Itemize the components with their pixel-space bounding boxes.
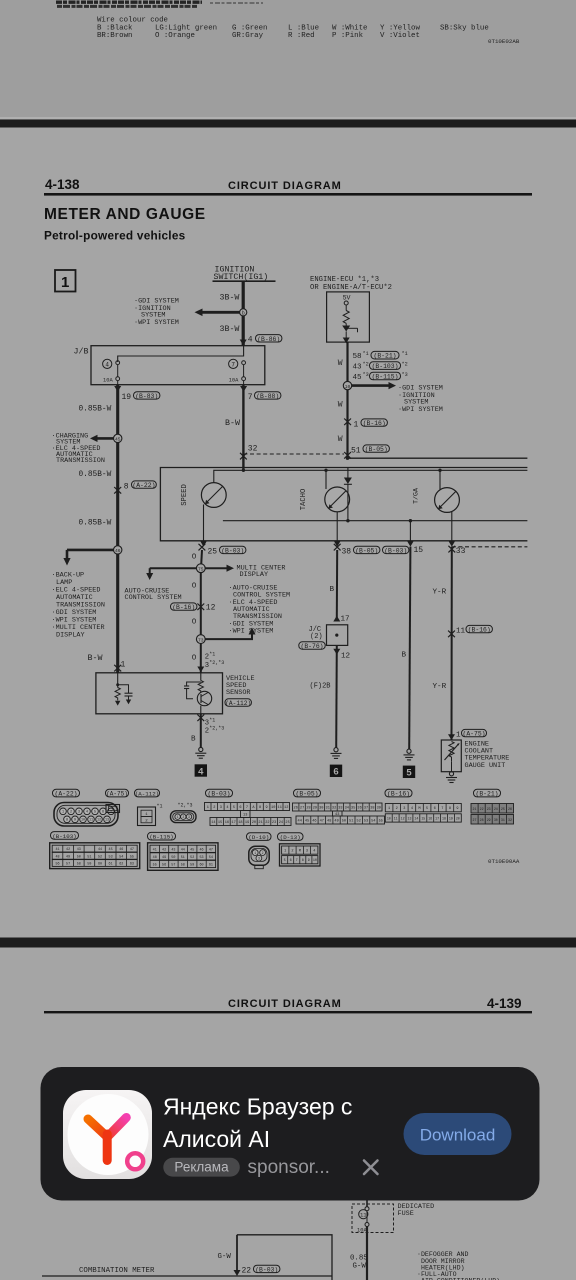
svg-text:32: 32 — [248, 445, 258, 454]
svg-text:7: 7 — [248, 393, 253, 402]
svg-text:4: 4 — [86, 811, 88, 815]
svg-text:49: 49 — [334, 820, 338, 824]
svg-text:52: 52 — [190, 856, 194, 860]
pin 12 (B-16) — [171, 603, 197, 610]
svg-text:55: 55 — [153, 864, 157, 868]
tacho signal wire 38 down — [336, 550, 338, 618]
systems list right of 73 — [229, 584, 291, 635]
svg-text:7: 7 — [231, 361, 235, 368]
svg-text:11: 11 — [278, 806, 282, 810]
svg-text:(B-03): (B-03) — [207, 791, 230, 798]
wire colour code legend — [97, 17, 520, 46]
svg-text:24: 24 — [494, 807, 498, 811]
alice ring — [127, 1153, 143, 1169]
svg-text:46: 46 — [119, 848, 123, 852]
svg-text:11: 11 — [394, 816, 398, 820]
svg-text:43: 43 — [77, 848, 81, 852]
svg-text:8: 8 — [124, 482, 129, 491]
svg-text:8: 8 — [259, 806, 261, 810]
svg-text:(B-86): (B-86) — [257, 336, 280, 343]
arrow out of ECU — [343, 338, 350, 344]
meter inner bus top — [214, 470, 528, 483]
svg-text:(B-115): (B-115) — [149, 834, 173, 841]
node 46 branch backup lamp — [67, 549, 118, 552]
svg-text:G-W: G-W — [353, 1263, 367, 1271]
svg-text:27: 27 — [300, 807, 304, 811]
pin 11 (B-16) — [448, 631, 455, 638]
svg-text:26: 26 — [508, 807, 512, 811]
svg-text:18: 18 — [442, 816, 446, 820]
dedicated fuse label — [398, 1203, 435, 1218]
svg-text:10A: 10A — [103, 378, 113, 384]
svg-text:*1: *1 — [209, 652, 215, 658]
connector label B-16 — [385, 789, 412, 797]
svg-text:M: M — [299, 850, 301, 854]
svg-text:2: 2 — [70, 811, 72, 815]
svg-text:1: 1 — [254, 851, 256, 855]
svg-text:OR ENGINE-A/T-ECU*2: OR ENGINE-A/T-ECU*2 — [310, 284, 392, 292]
svg-text:1: 1 — [456, 731, 461, 739]
systems list p139 — [417, 1251, 500, 1280]
svg-text:23: 23 — [487, 807, 491, 811]
svg-text:(B-03): (B-03) — [221, 547, 244, 554]
svg-text:W :White: W :White — [332, 24, 367, 32]
svg-text:*2,*3: *2,*3 — [178, 803, 193, 809]
svg-text:75: 75 — [198, 566, 204, 572]
ad banner card — [41, 1067, 540, 1201]
svg-text:5: 5 — [233, 806, 235, 810]
svg-text:·WPI SYSTEM: ·WPI SYSTEM — [229, 628, 274, 636]
connector X on 32 wire — [240, 453, 247, 460]
svg-text:Реклама: Реклама — [174, 1160, 229, 1175]
connector B-103 body — [50, 843, 140, 869]
svg-text:46: 46 — [115, 548, 121, 554]
connector label B-103 — [51, 832, 79, 840]
svg-text:4: 4 — [248, 335, 253, 344]
svg-text:51: 51 — [87, 855, 91, 859]
svg-text:M: M — [418, 807, 420, 811]
svg-text:51: 51 — [349, 820, 353, 824]
connector label D-10 — [247, 833, 272, 841]
svg-text:*1: *1 — [363, 351, 369, 357]
svg-text:28: 28 — [480, 818, 484, 822]
svg-text:13: 13 — [105, 819, 109, 823]
svg-text:(B-21): (B-21) — [373, 353, 396, 360]
svg-text:17: 17 — [341, 616, 350, 624]
svg-text:16: 16 — [225, 821, 229, 825]
svg-text:O: O — [192, 619, 197, 627]
svg-text:21: 21 — [258, 821, 262, 825]
svg-text:·WPI SYSTEM: ·WPI SYSTEM — [134, 319, 179, 327]
svg-text:3: 3 — [188, 815, 190, 819]
svg-text:(B-83): (B-83) — [135, 393, 158, 400]
svg-text:52: 52 — [98, 855, 102, 859]
connector D-10 body — [249, 846, 269, 868]
svg-text:20: 20 — [252, 821, 256, 825]
svg-text:(D-10): (D-10) — [248, 834, 269, 841]
buffer diode in ECU — [342, 326, 350, 332]
svg-text:6: 6 — [434, 807, 436, 811]
Y logo stem — [103, 1134, 112, 1161]
node 45 branch charging — [96, 437, 118, 440]
svg-text:42: 42 — [66, 848, 70, 852]
svg-text:37: 37 — [364, 807, 368, 811]
svg-text:1: 1 — [121, 660, 126, 669]
svg-text:B: B — [191, 736, 196, 744]
svg-text:(D-13): (D-13) — [280, 834, 301, 841]
connector B-03 body — [205, 803, 290, 811]
svg-text:59: 59 — [87, 863, 91, 867]
svg-text:29: 29 — [487, 818, 491, 822]
vehicle speed sensor box — [96, 673, 223, 714]
connector label B-05 — [294, 789, 321, 797]
svg-text:0T10E02AB: 0T10E02AB — [488, 38, 520, 45]
svg-text:J/B: J/B — [74, 347, 89, 357]
exit arrow 15 — [407, 541, 414, 547]
ground code 6 — [330, 765, 342, 777]
svg-text:·WPI SYSTEM: ·WPI SYSTEM — [398, 406, 443, 414]
svg-text:48: 48 — [153, 856, 157, 860]
svg-text:B :Black: B :Black — [97, 24, 133, 32]
svg-text:2: 2 — [213, 806, 215, 810]
svg-text:58: 58 — [181, 864, 185, 868]
svg-text:Y-R: Y-R — [433, 683, 447, 691]
svg-text:(B-103): (B-103) — [372, 363, 399, 370]
connector A-112 alt body — [171, 803, 197, 823]
svg-text:4: 4 — [411, 807, 413, 811]
svg-text:62: 62 — [119, 863, 123, 867]
Y logo right arm — [108, 1118, 127, 1137]
svg-text:L :Blue: L :Blue — [288, 24, 319, 32]
svg-text:5: 5 — [94, 811, 96, 815]
svg-text:6: 6 — [333, 767, 338, 778]
svg-text:9: 9 — [308, 859, 310, 863]
exit arrow 33 — [448, 541, 455, 547]
svg-text:21: 21 — [473, 807, 477, 811]
svg-text:10: 10 — [387, 816, 391, 820]
svg-text:3: 3 — [78, 811, 80, 815]
svg-text:4: 4 — [198, 766, 204, 777]
svg-text:9: 9 — [266, 806, 268, 810]
exit arrow 38 — [334, 541, 341, 547]
svg-text:30: 30 — [494, 818, 498, 822]
svg-text:Y-R: Y-R — [433, 589, 447, 597]
branch left auto-cruise — [150, 567, 197, 569]
svg-text:13: 13 — [243, 814, 247, 818]
svg-text:30: 30 — [319, 807, 323, 811]
5V terminal — [344, 301, 348, 305]
wire W from ECU down — [346, 342, 348, 458]
svg-text:*1: *1 — [209, 717, 215, 723]
svg-text:O :Orange: O :Orange — [155, 32, 195, 40]
tacho tap wire — [325, 470, 327, 489]
svg-text:12: 12 — [401, 816, 405, 820]
svg-text:B-W: B-W — [225, 419, 240, 428]
svg-text:4: 4 — [313, 850, 315, 854]
svg-text:O: O — [192, 655, 197, 663]
svg-text:10: 10 — [81, 819, 85, 823]
node 75 — [196, 564, 205, 573]
svg-text:42: 42 — [162, 848, 166, 852]
svg-text:(B-103): (B-103) — [52, 833, 76, 840]
ground below ECT — [449, 772, 453, 776]
svg-text:51: 51 — [181, 856, 185, 860]
svg-text:63: 63 — [130, 863, 134, 867]
connector label B-21 — [474, 789, 501, 797]
svg-text:Алисой AI: Алисой AI — [163, 1126, 270, 1152]
svg-text:(B-115): (B-115) — [372, 373, 399, 380]
svg-text:(B-05): (B-05) — [295, 791, 318, 798]
svg-text:CONTROL SYSTEM: CONTROL SYSTEM — [125, 594, 182, 602]
pin 1 (B-16) — [344, 419, 351, 426]
svg-text:57: 57 — [171, 864, 175, 868]
svg-text:20: 20 — [456, 816, 460, 820]
svg-text:50: 50 — [171, 856, 175, 860]
svg-text:(A-112): (A-112) — [135, 791, 159, 798]
svg-text:9: 9 — [456, 807, 458, 811]
app icon tile — [63, 1090, 152, 1179]
svg-text:32: 32 — [508, 818, 512, 822]
svg-text:(A-75): (A-75) — [106, 791, 128, 798]
ground 6 symbol — [334, 748, 338, 752]
joint connector J/C(2) box — [327, 625, 348, 646]
svg-text:3B-W: 3B-W — [220, 325, 240, 334]
svg-text:11: 11 — [456, 628, 466, 636]
svg-text:sponsor...: sponsor... — [248, 1157, 330, 1178]
svg-text:4: 4 — [226, 806, 228, 810]
svg-text:*2: *2 — [363, 362, 369, 368]
svg-text:47: 47 — [320, 820, 324, 824]
pull-up resistor R in ECU — [343, 311, 349, 324]
svg-text:48: 48 — [327, 820, 331, 824]
svg-text:59: 59 — [190, 864, 194, 868]
connector label D-13 — [278, 833, 304, 841]
svg-text:55: 55 — [130, 855, 134, 859]
svg-text:1: 1 — [284, 850, 286, 854]
fuel gauge tap — [439, 470, 441, 489]
connector B-16 body — [385, 804, 461, 812]
svg-text:Wire colour code: Wire colour code — [97, 17, 168, 25]
svg-text:b: b — [242, 310, 245, 316]
svg-text:1: 1 — [207, 806, 209, 810]
svg-text:50: 50 — [342, 820, 346, 824]
wire B-W right from J/B — [242, 385, 244, 471]
top rail wire from 51 — [348, 457, 528, 459]
svg-text:TRANSMISSION: TRANSMISSION — [56, 457, 105, 465]
ground code 5 — [403, 766, 415, 778]
tacho diode branch — [347, 468, 349, 478]
connector X mark A-22 — [114, 487, 121, 494]
svg-text:Яндекс Браузер с: Яндекс Браузер с — [163, 1094, 352, 1120]
engine coolant temp gauge unit box — [441, 740, 461, 772]
svg-text:9: 9 — [74, 819, 76, 823]
svg-text:60: 60 — [98, 863, 102, 867]
svg-text:46: 46 — [312, 820, 316, 824]
svg-text:4-138: 4-138 — [45, 177, 80, 192]
svg-text:0.85B-W: 0.85B-W — [79, 471, 112, 479]
svg-text:17: 17 — [231, 821, 235, 825]
svg-text:48: 48 — [55, 855, 59, 859]
engine ECU label — [310, 276, 392, 292]
meter box top edge p139 — [42, 1275, 332, 1277]
svg-text:Y :Yellow: Y :Yellow — [380, 24, 420, 32]
exit arrow 25 — [200, 541, 207, 547]
svg-text:(A-112): (A-112) — [225, 700, 251, 707]
svg-text:39: 39 — [377, 807, 381, 811]
svg-text:7: 7 — [246, 806, 248, 810]
svg-text:10: 10 — [313, 859, 317, 863]
svg-text:45: 45 — [353, 374, 363, 382]
wire 0.85B-W left trunk — [116, 385, 119, 673]
svg-text:1: 1 — [61, 274, 69, 291]
right system list — [398, 385, 443, 414]
svg-text:TACHO: TACHO — [300, 489, 308, 511]
svg-text:4: 4 — [105, 361, 109, 368]
svg-text:DISPLAY: DISPLAY — [240, 571, 269, 579]
svg-text:33: 33 — [456, 547, 466, 556]
svg-text:26: 26 — [294, 807, 298, 811]
arrow into J/B — [240, 340, 247, 346]
ground 4 symbol — [199, 747, 203, 751]
wire ignition to J/B — [242, 281, 245, 346]
connector B-21 lower row — [471, 815, 514, 825]
svg-text:16: 16 — [428, 816, 432, 820]
svg-text:13: 13 — [408, 816, 412, 820]
svg-text:(B-76): (B-76) — [300, 643, 323, 650]
svg-text:7: 7 — [296, 859, 298, 863]
auto-cruise label left — [125, 587, 182, 602]
svg-text:8: 8 — [449, 807, 451, 811]
svg-text:12: 12 — [284, 806, 288, 810]
Y logo left arm — [88, 1119, 107, 1137]
ground 5 symbol — [407, 749, 411, 753]
meter inner bus bottom — [223, 520, 528, 522]
svg-text:56: 56 — [162, 864, 166, 868]
dedicated fuse box p139 — [352, 1200, 394, 1234]
branch arrow to left systems — [201, 311, 243, 314]
svg-text:47: 47 — [130, 848, 134, 852]
svg-text:W: W — [338, 359, 343, 368]
(B-76) label — [299, 642, 325, 649]
svg-text:(A-22): (A-22) — [54, 791, 77, 798]
svg-text:LG:Light green: LG:Light green — [155, 24, 217, 32]
svg-text:45: 45 — [190, 848, 194, 852]
svg-text:ENGINE-ECU *1,*3: ENGINE-ECU *1,*3 — [310, 276, 379, 284]
svg-text:41: 41 — [153, 848, 157, 852]
svg-text:5: 5 — [426, 807, 428, 811]
svg-text:(A-75): (A-75) — [462, 731, 485, 738]
svg-text:41: 41 — [55, 848, 59, 852]
svg-text:2: 2 — [291, 850, 293, 854]
svg-text:43: 43 — [171, 848, 175, 852]
figure number box 1 — [55, 270, 76, 292]
svg-text:45: 45 — [109, 848, 113, 852]
close icon — [364, 1161, 378, 1175]
VSS internal left RC — [117, 673, 119, 688]
branch right from 73 — [205, 633, 252, 639]
svg-text:T/GA: T/GA — [413, 488, 420, 504]
ECU pin rows — [353, 351, 408, 382]
svg-text:10: 10 — [271, 806, 275, 810]
fuse 7 — [242, 361, 246, 365]
svg-text:*1: *1 — [402, 351, 408, 357]
pins 3/2 below VSS — [197, 715, 204, 722]
svg-text:1: 1 — [388, 807, 390, 811]
svg-text:GR:Gray: GR:Gray — [232, 32, 264, 40]
ground code 4 — [195, 764, 207, 776]
svg-text:1: 1 — [177, 815, 179, 819]
svg-text:(B-16): (B-16) — [172, 604, 195, 611]
svg-text:12: 12 — [206, 604, 216, 613]
svg-text:61: 61 — [109, 863, 113, 867]
connector B-115 body — [148, 843, 218, 871]
svg-text:0.85B-W: 0.85B-W — [79, 406, 112, 414]
svg-text:(B-05): (B-05) — [365, 446, 388, 453]
svg-text:49: 49 — [66, 855, 70, 859]
J/B internal bus — [118, 346, 244, 362]
svg-text:COMBINATION METER: COMBINATION METER — [79, 1267, 155, 1275]
svg-text:O: O — [192, 554, 197, 562]
svg-text:52: 52 — [357, 820, 361, 824]
pin 7 (B-88) — [240, 386, 247, 392]
backup lamp list — [52, 572, 105, 640]
svg-text:W: W — [338, 401, 343, 410]
connector label A-112 — [135, 789, 160, 797]
svg-text:(B-16): (B-16) — [387, 791, 410, 798]
svg-text:38: 38 — [370, 807, 374, 811]
svg-text:14: 14 — [211, 821, 215, 825]
svg-text:BR:Brown: BR:Brown — [97, 32, 132, 40]
svg-text:22: 22 — [242, 1266, 252, 1275]
svg-text:60: 60 — [199, 864, 203, 868]
svg-text:0T10E00AA: 0T10E00AA — [488, 858, 520, 865]
svg-text:3: 3 — [220, 806, 222, 810]
svg-text:31: 31 — [501, 818, 505, 822]
svg-text:44: 44 — [298, 820, 302, 824]
svg-text:B: B — [330, 586, 335, 594]
pin 19 (B-83) — [114, 386, 121, 392]
svg-text:*2: *2 — [402, 362, 408, 368]
earth wire 15 down — [409, 547, 410, 749]
svg-text:8: 8 — [302, 859, 304, 863]
svg-text:2: 2 — [182, 815, 184, 819]
svg-text:B-W: B-W — [88, 654, 103, 663]
ad badge — [163, 1158, 240, 1177]
svg-text:15: 15 — [414, 546, 424, 555]
connector B-05 mid cell — [333, 811, 343, 817]
dashed stub right of 33 — [452, 546, 528, 548]
fuse 4 — [116, 361, 120, 365]
connector B-05 body — [293, 803, 383, 811]
svg-text:V :Violet: V :Violet — [380, 32, 420, 40]
VSS label — [226, 675, 255, 697]
page separator band bottom — [0, 938, 576, 948]
svg-text:(B-03): (B-03) — [384, 547, 407, 554]
svg-text:CIRCUIT DIAGRAM: CIRCUIT DIAGRAM — [228, 180, 342, 192]
svg-text:45: 45 — [115, 437, 121, 443]
svg-text:3: 3 — [403, 807, 405, 811]
ECT gauge unit label — [465, 740, 510, 770]
connector label A-75 — [106, 789, 129, 797]
connector label B-115 — [148, 832, 176, 840]
svg-text:50: 50 — [77, 855, 81, 859]
svg-text:15: 15 — [421, 816, 425, 820]
svg-text:DISPLAY: DISPLAY — [56, 632, 85, 640]
svg-text:*2,*3: *2,*3 — [209, 726, 224, 732]
svg-text:(B-21): (B-21) — [475, 791, 498, 798]
node 73 — [196, 635, 205, 644]
svg-text:15: 15 — [218, 821, 222, 825]
